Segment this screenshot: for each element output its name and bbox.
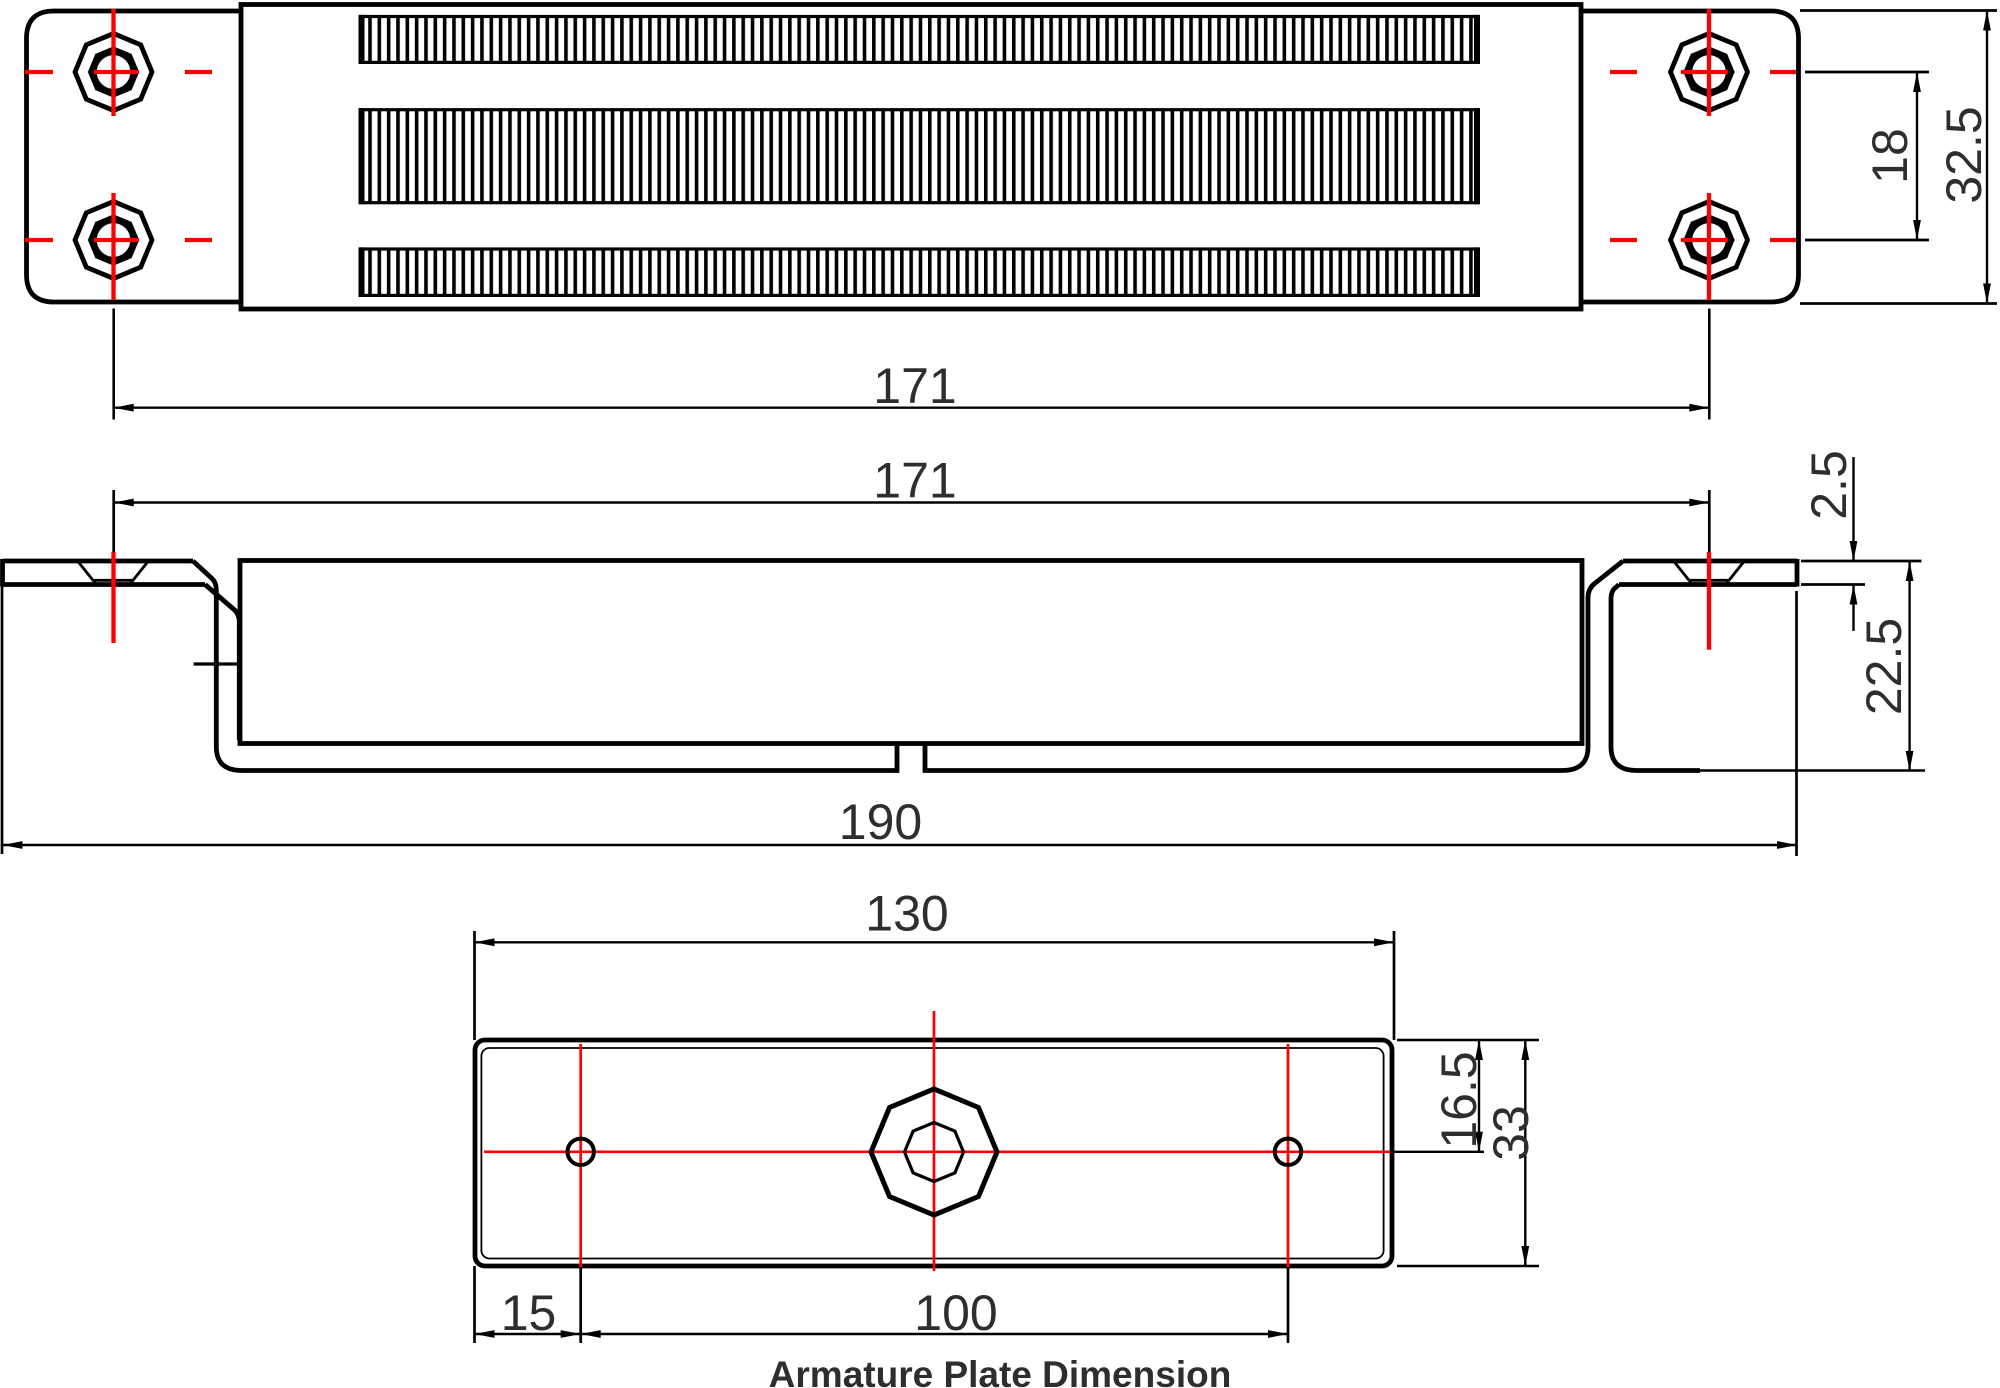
dimension 171 (top view): dimension line with arrowheads bbox=[114, 404, 1710, 412]
svg-text:130: 130 bbox=[865, 886, 948, 942]
armature plate inner outline bbox=[481, 1048, 1383, 1259]
upper right bracket nut (octagon head, socket, hole) bbox=[1671, 34, 1748, 111]
dimension 2.5: dimension shafts with outside arrowheads bbox=[1850, 457, 1858, 631]
left bracket bend outer contour and bottom plate with centre notch bbox=[193, 561, 897, 771]
dimension 16.5: dimension line with arrowheads bbox=[1475, 1040, 1483, 1152]
svg-text:15: 15 bbox=[501, 1285, 557, 1341]
red horizontal centerline dashes, left bracket nut row y=240 bbox=[25, 238, 212, 242]
weld tick on left bracket bend bbox=[194, 662, 239, 665]
svg-text:Armature Plate Dimension: Armature Plate Dimension bbox=[769, 1354, 1232, 1388]
red vertical centerline through left plate hole bbox=[579, 1044, 582, 1267]
magnet pole strip 1 with vertical hatch bbox=[361, 15, 1478, 64]
red horizontal centerline dashes, right bracket nut row y=240 bbox=[1610, 238, 1796, 242]
dimension 130: extension lines bbox=[475, 931, 1395, 1040]
svg-text:18: 18 bbox=[1862, 128, 1918, 184]
svg-text:32.5: 32.5 bbox=[1936, 106, 1992, 203]
centre nut of armature plate (octagon head and socket) bbox=[871, 1089, 997, 1215]
svg-text:171: 171 bbox=[873, 453, 956, 509]
lower left bracket nut (octagon head, socket, hole) bbox=[75, 202, 152, 279]
dimension 171 (top view): extension lines bbox=[114, 309, 1710, 420]
upper left bracket nut (octagon head, socket, hole) bbox=[75, 34, 152, 111]
dimension 18: extension lines from right nuts bbox=[1805, 72, 1929, 240]
svg-text:16.5: 16.5 bbox=[1431, 1051, 1487, 1148]
dimension 2.5: extension lines (flange top and underside) bbox=[1801, 561, 1922, 585]
magnet pole strip 2 with vertical hatch bbox=[361, 108, 1478, 204]
svg-text:100: 100 bbox=[914, 1285, 997, 1341]
red vertical centerline of armature plate bbox=[933, 1011, 936, 1271]
right bracket bend inner contour continuing as 22.5 bottom extension bbox=[1611, 585, 1700, 771]
dimension 15: dimension line with arrowheads bbox=[475, 1330, 581, 1338]
dimension 32.5: dimension line with arrowheads bbox=[1983, 11, 1991, 304]
left bracket flange (side view): end edge bbox=[0, 559, 5, 587]
left bracket bend inner contour bbox=[205, 585, 239, 741]
svg-text:2.5: 2.5 bbox=[1801, 450, 1857, 520]
dimension 130: dimension line with arrowheads bbox=[475, 938, 1395, 946]
red vertical centerline through right plate hole bbox=[1287, 1044, 1290, 1267]
right bracket bend outer contour and bottom plate with centre notch bbox=[925, 561, 1623, 771]
dimension 33: dimension line with arrowheads bbox=[1521, 1040, 1529, 1266]
dimension 100: dimension line with arrowheads bbox=[581, 1330, 1288, 1338]
dimension 18: dimension line with arrowheads bbox=[1913, 72, 1921, 240]
dimension 16.5: centerline extension bbox=[1391, 1151, 1484, 1153]
dimension 171 (side view): extension lines bbox=[114, 490, 1710, 557]
svg-text:190: 190 bbox=[839, 794, 922, 850]
red horizontal centerline dashes, right bracket nut row y=72 bbox=[1610, 70, 1796, 74]
red centerline left countersink (side view) bbox=[111, 552, 115, 643]
right flange countersunk screw hole bbox=[1674, 562, 1744, 586]
dimension 16.5 and 33: shared top extension line bbox=[1397, 1039, 1539, 1041]
maglock body outline (top view) bbox=[241, 5, 1581, 310]
svg-text:33: 33 bbox=[1483, 1105, 1539, 1161]
dimension 32.5: extension lines from bracket top/bottom bbox=[1800, 11, 1997, 304]
armature plate outer outline bbox=[475, 1040, 1392, 1266]
right plate hole bbox=[1275, 1139, 1301, 1165]
svg-text:171: 171 bbox=[873, 358, 956, 414]
dimension 33: bottom extension line bbox=[1397, 1265, 1539, 1267]
svg-text:22.5: 22.5 bbox=[1856, 618, 1912, 715]
red horizontal centerline dashes, left bracket nut row y=72 bbox=[25, 70, 212, 74]
right bracket flange (side view): end edge bbox=[1795, 559, 1800, 587]
dimension 190: dimension line with arrowheads bbox=[3, 841, 1798, 849]
red vertical centerline, left bracket lower nut bbox=[111, 193, 115, 300]
left bracket flange (side view): top surface bbox=[3, 559, 194, 564]
red vertical centerline, right bracket upper nut bbox=[1707, 9, 1711, 116]
magnet pole strip 3 with vertical hatch bbox=[361, 247, 1478, 297]
dimension 22.5: dimension line with arrowheads bbox=[1906, 561, 1914, 771]
right bracket flange (side view): underside bbox=[1619, 582, 1797, 587]
right bracket flange (side view): top surface bbox=[1623, 559, 1797, 564]
left bracket flange (side view): underside bbox=[3, 582, 206, 587]
right mounting bracket outline (top view) bbox=[1583, 11, 1799, 302]
lower right bracket nut (octagon head, socket, hole) bbox=[1671, 202, 1748, 279]
red horizontal centerline of armature plate bbox=[484, 1150, 1390, 1153]
left plate hole bbox=[568, 1139, 594, 1165]
maglock body outline (side view) bbox=[240, 561, 1582, 744]
left flange countersunk screw hole bbox=[78, 562, 148, 586]
left mounting bracket outline (top view) bbox=[27, 11, 244, 302]
red centerline right countersink (side view) bbox=[1707, 552, 1711, 650]
red vertical centerline, left bracket upper nut bbox=[111, 9, 115, 116]
dimension 171 (side view): dimension line with arrowheads bbox=[114, 499, 1710, 507]
red vertical centerline, right bracket lower nut bbox=[1707, 193, 1711, 300]
dimensions 15 and 100: extension lines below plate bbox=[475, 1266, 1289, 1343]
dimension 190: extension lines bbox=[2, 585, 1797, 856]
